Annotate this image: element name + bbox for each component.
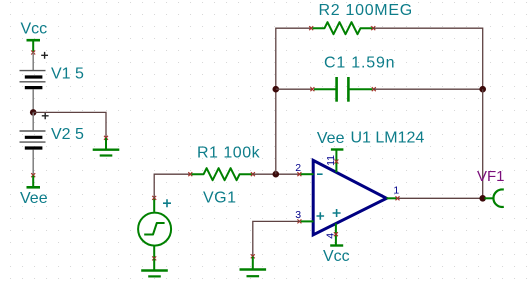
- resistor R1: [188, 168, 255, 180]
- wire output node vertical: [482, 89, 484, 198]
- battery V2: [20, 112, 49, 175]
- pin 11 terminal (top supply): [331, 150, 344, 173]
- junction at C1/R2 right: [479, 86, 486, 93]
- svg-text:VF1: VF1: [477, 168, 505, 185]
- svg-text:4: 4: [324, 233, 336, 239]
- svg-text:Vcc: Vcc: [21, 21, 48, 38]
- pin 1 stub (output): [387, 197, 397, 199]
- svg-text:3: 3: [295, 209, 301, 221]
- junction between V1 and V2: [30, 109, 37, 116]
- svg-text:VG1: VG1: [203, 190, 237, 207]
- op-amp minus input sign: [317, 173, 323, 175]
- ground (below VG1): [141, 259, 168, 277]
- junction at C1 left: [273, 86, 280, 93]
- wire pin 3 to ground: [253, 221, 300, 256]
- power terminal Vcc: [27, 40, 41, 52]
- wire C1 right to output node: [374, 88, 483, 90]
- svg-text:11: 11: [325, 155, 337, 166]
- svg-text:R2 100MEG: R2 100MEG: [319, 2, 413, 19]
- voltage generator VG1: [138, 198, 171, 258]
- svg-text:R1 100k: R1 100k: [197, 145, 261, 162]
- pin mark pin 11: [334, 160, 338, 164]
- wire R2 right to output node: [373, 28, 482, 89]
- svg-text:V2 5: V2 5: [51, 126, 84, 143]
- wire C1 left branch: [276, 88, 313, 90]
- pin mark pin 4: [334, 232, 338, 236]
- op-amp plus input sign: [317, 212, 325, 220]
- resistor R2: [309, 22, 375, 34]
- pin mark pin 3: [297, 219, 301, 223]
- pin 4 terminal (bottom supply): [330, 224, 343, 246]
- wire R1 to op-amp input node: [253, 173, 300, 175]
- ground (battery mid-point): [93, 138, 120, 156]
- svg-text:V1 5: V1 5: [51, 65, 84, 82]
- svg-text:U1 LM124: U1 LM124: [351, 130, 425, 147]
- svg-text:2: 2: [295, 162, 301, 174]
- pin mark Vee terminal: [31, 173, 35, 177]
- op-amp supply plus sign: [333, 209, 341, 217]
- battery V1: [20, 52, 49, 113]
- pin 3 stub: [301, 220, 314, 222]
- svg-text:Vee: Vee: [20, 190, 48, 207]
- svg-text:C1 1.59n: C1 1.59n: [324, 55, 395, 72]
- wire from battery junction to ground: [33, 112, 106, 137]
- junction at output VF1: [479, 195, 486, 202]
- svg-text:Vee: Vee: [317, 130, 345, 147]
- wire VG1 to R1: [154, 174, 190, 198]
- pin mark VG1 top: [152, 196, 156, 200]
- op-amp U1 body: [313, 160, 386, 234]
- pin mark pin 2: [297, 172, 301, 176]
- junction at inverting input node: [273, 171, 280, 178]
- pin mark ground 1: [104, 136, 108, 140]
- pin mark Vcc terminal: [31, 51, 35, 55]
- svg-text:Vcc: Vcc: [323, 248, 350, 265]
- pin mark ground 3: [251, 254, 255, 258]
- voltage pin VF1: [485, 189, 504, 206]
- wire input node up to feedback branch: [276, 28, 311, 174]
- svg-text:1: 1: [393, 185, 399, 197]
- pin mark pin 1: [396, 196, 400, 200]
- wire op-amp output to VF1 node: [399, 197, 483, 199]
- pin 2 stub: [301, 173, 314, 175]
- capacitor C1: [310, 77, 375, 102]
- pin mark VG1 bottom: [152, 256, 156, 260]
- ground (non-inverting input): [240, 257, 267, 277]
- power terminal Vee: [27, 176, 41, 188]
